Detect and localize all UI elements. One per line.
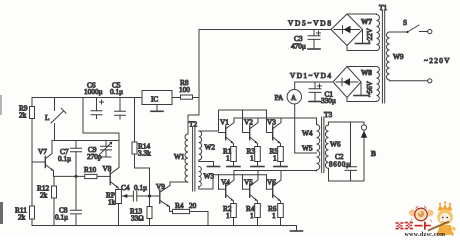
terminal lower — [428, 79, 432, 83]
ground R1 — [227, 162, 240, 167]
svg-text:R10: R10 — [84, 165, 97, 174]
transformer T3 winding W6 — [325, 125, 340, 168]
svg-text:VD1~VD4: VD1~VD4 — [290, 71, 331, 80]
wire step to W1 — [188, 115, 199, 134]
ground bridge1 — [356, 30, 370, 44]
wire base drop V4 — [218, 175, 220, 189]
resistor R1 — [223, 147, 236, 163]
transistor V3 — [267, 118, 282, 147]
capacitor C3 — [291, 30, 321, 51]
wire base drop V6 — [266, 175, 268, 189]
svg-text:~220V: ~220V — [424, 56, 450, 65]
bridge rectifier VD5~VD8 — [288, 14, 363, 46]
svg-text:0.1μ: 0.1μ — [110, 87, 123, 96]
wire W2 top to base rail — [199, 110, 219, 131]
wire bridge2 to W8 — [347, 67, 377, 102]
svg-text:www.dzsc.com: www.dzsc.com — [405, 232, 446, 237]
resistor R6 — [268, 204, 283, 226]
resistor R3 — [247, 147, 261, 163]
svg-text:2k: 2k — [18, 213, 26, 222]
ground C1 — [309, 101, 321, 103]
svg-text:W1: W1 — [174, 152, 185, 161]
svg-text:0.1μ: 0.1μ — [134, 183, 147, 192]
wire bottom rail — [32, 225, 297, 227]
svg-text:W9: W9 — [393, 52, 404, 61]
transistor V9 — [150, 182, 171, 212]
wire collector rail upper — [234, 118, 317, 125]
svg-text:330μ: 330μ — [321, 96, 336, 105]
wire emitter row — [54, 175, 85, 177]
svg-text:A: A — [291, 94, 296, 102]
resistor R13 — [130, 196, 152, 226]
left edge smudge — [0, 202, 3, 224]
op-amp IC — [142, 91, 172, 105]
svg-text:2k: 2k — [19, 111, 27, 120]
svg-text:1: 1 — [226, 154, 230, 163]
svg-text:1: 1 — [250, 211, 254, 220]
svg-text:W6: W6 — [330, 140, 341, 149]
transformer T3 core — [322, 110, 333, 173]
svg-text:1: 1 — [273, 154, 277, 163]
resistor R4 lower — [246, 204, 260, 226]
transistor V2 — [243, 118, 259, 147]
ground R3 — [251, 162, 264, 167]
wire collector node row — [52, 140, 119, 142]
wire PA top to bridge VD1-VD4 — [295, 81, 333, 83]
svg-text:W8: W8 — [361, 68, 372, 77]
svg-text:PA: PA — [275, 93, 284, 102]
svg-text:100: 100 — [179, 85, 190, 94]
node junction C4/R13/V9 — [148, 194, 151, 197]
wire upper base rail — [219, 109, 267, 111]
svg-text:270p: 270p — [87, 152, 102, 161]
capacitor C8 — [55, 206, 82, 222]
svg-text:1: 1 — [226, 211, 230, 220]
wire left column — [31, 98, 33, 226]
svg-text:1: 1 — [272, 211, 276, 220]
svg-text:V7: V7 — [38, 147, 47, 156]
transistor V4 — [219, 171, 235, 204]
svg-text:1k: 1k — [108, 198, 116, 207]
wire base drop V5 — [242, 175, 244, 189]
svg-text:~22V: ~22V — [366, 28, 374, 44]
wire W9 bottom — [390, 79, 428, 82]
svg-text:B: B — [371, 149, 376, 158]
wire W2/W3 tap to ground — [199, 160, 220, 166]
transformer T2 winding W2 — [199, 131, 216, 160]
svg-text:IC: IC — [151, 95, 158, 104]
ground C3 — [308, 48, 320, 50]
resistor R4 20 — [170, 201, 209, 226]
svg-text:R4: R4 — [175, 201, 184, 210]
svg-text:V5: V5 — [244, 178, 253, 187]
transformer T2 winding W1 — [174, 134, 188, 182]
wire lower base rail — [213, 174, 267, 176]
transistor V7 — [32, 141, 54, 177]
svg-text:1000μ: 1000μ — [84, 87, 103, 96]
watermark badge — [409, 206, 435, 222]
transistor V6 — [267, 171, 282, 204]
capacitor C1 — [309, 82, 336, 105]
capacitor C2 — [329, 122, 357, 181]
resistor R10 — [74, 165, 110, 179]
transformer T2 core — [189, 120, 197, 192]
svg-text:2k: 2k — [40, 191, 48, 200]
svg-text:S: S — [403, 18, 407, 27]
resistor R12 — [37, 176, 57, 225]
svg-text:V2: V2 — [244, 118, 253, 127]
lamp L — [45, 98, 66, 141]
svg-text:W2: W2 — [205, 143, 216, 152]
bridge rectifier VD1~VD4 — [290, 67, 361, 98]
svg-text:L: L — [45, 113, 50, 122]
svg-text:V3: V3 — [267, 118, 276, 127]
transistor V5 — [243, 171, 259, 204]
wire W6 top loop — [329, 122, 365, 125]
svg-text:~56V: ~56V — [366, 81, 374, 97]
svg-text:V9: V9 — [156, 182, 165, 191]
wire top rail left — [32, 97, 142, 99]
svg-text:V8: V8 — [103, 164, 112, 173]
capacitor C6 — [84, 81, 104, 119]
switch S — [390, 18, 428, 33]
wire base drop V2 — [242, 110, 244, 133]
svg-text:W4: W4 — [302, 129, 313, 138]
resistor R5 — [270, 147, 284, 163]
resistor R14 — [132, 98, 151, 196]
transformer T1 winding W9 — [387, 32, 404, 80]
resistor R9 — [19, 104, 35, 120]
transistor V8 — [103, 141, 120, 190]
watermark mascot — [428, 201, 456, 235]
ground under IC — [151, 105, 163, 112]
svg-text:V4: V4 — [221, 178, 230, 187]
wire W3 bottom to lower base rail — [199, 175, 213, 189]
transformer T1 winding W7 — [361, 15, 380, 51]
capacitor C5 — [110, 81, 126, 120]
svg-text:3.3k: 3.3k — [138, 149, 151, 158]
transformer T1 winding W8 — [361, 67, 379, 102]
svg-text:W5: W5 — [302, 144, 313, 153]
wire bridge1 to W7 — [347, 14, 377, 51]
capacitor C4 — [121, 183, 150, 201]
wire supply drop to V8 collector node — [83, 98, 119, 141]
svg-text:T3: T3 — [324, 110, 332, 119]
svg-text:W7: W7 — [361, 17, 372, 26]
wire top feed — [199, 29, 331, 31]
wire W5 bottom to lower collector rail — [316, 170, 318, 172]
terminal upper — [428, 29, 432, 33]
ammeter PA — [275, 82, 317, 153]
resistor R2 — [223, 204, 236, 226]
resistor R8 — [172, 78, 199, 99]
transformer T1 core — [379, 3, 387, 103]
potentiometer RP — [106, 190, 133, 226]
ground bottom right — [291, 226, 303, 232]
wire V9 collector to W1 — [170, 181, 188, 183]
svg-text:C4: C4 — [121, 183, 130, 192]
ground bridge2 — [354, 82, 368, 96]
wire base drop V3 — [266, 110, 268, 133]
svg-text:VD5~VD8: VD5~VD8 — [288, 19, 331, 28]
wire W6 bottom loop — [329, 168, 365, 181]
ground R5 — [274, 162, 287, 167]
svg-text:T1: T1 — [379, 3, 387, 12]
wire collector rail lower — [234, 170, 317, 172]
capacitor C7 — [58, 141, 82, 226]
svg-text:V1: V1 — [220, 118, 229, 127]
capacitor C9 trimmer — [87, 141, 112, 162]
svg-text:0.1μ: 0.1μ — [58, 154, 71, 163]
watermark text weiku — [396, 222, 431, 230]
svg-text:T2: T2 — [189, 120, 197, 129]
output terminal B — [361, 122, 376, 181]
wire main vertical to top — [198, 30, 200, 116]
svg-text:8600μ: 8600μ — [329, 161, 350, 169]
resistor R11 — [15, 206, 35, 222]
svg-text:33Ω: 33Ω — [131, 214, 144, 223]
svg-text:20: 20 — [189, 201, 197, 210]
transformer T2 winding W3 — [199, 167, 215, 187]
svg-text:0.1μ: 0.1μ — [55, 213, 68, 222]
svg-text:1: 1 — [250, 154, 254, 163]
svg-text:470μ: 470μ — [291, 42, 306, 51]
transformer T3 winding W4/W5 — [302, 125, 320, 171]
svg-text:V6: V6 — [267, 178, 276, 187]
transistor V1 — [219, 118, 235, 147]
